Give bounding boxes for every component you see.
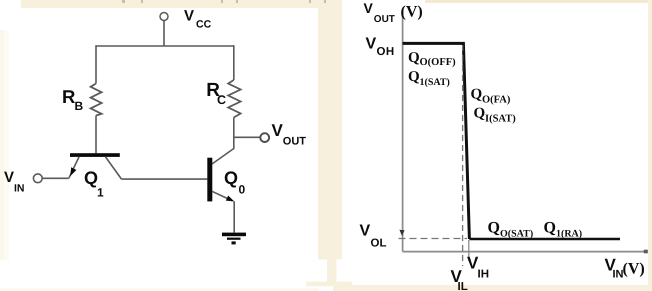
graph y-axis (402, 11, 404, 252)
svg-text:O(FA): O(FA) (482, 95, 511, 106)
transistor Q0 emitter (212, 191, 234, 203)
label QI(SAT) (474, 105, 517, 124)
svg-text:1: 1 (97, 186, 104, 200)
wire node to VOUT terminal (234, 136, 260, 138)
label RB (62, 86, 84, 113)
svg-text:OH: OH (377, 46, 395, 58)
transistor Q1 collector (106, 157, 122, 179)
resistor RC (228, 80, 240, 118)
transistor Q1 base bar (70, 153, 120, 157)
resistor RB (91, 84, 102, 116)
transistor Q1 emitter arrowhead (70, 167, 76, 176)
label VIL (451, 267, 468, 291)
label VOL (360, 222, 387, 249)
svg-text:V: V (4, 169, 14, 186)
svg-text:OL: OL (371, 237, 387, 249)
label QO(SAT) (488, 220, 534, 240)
transistor Q0 collector (212, 137, 234, 165)
dashed VIL vertical line (462, 45, 464, 266)
svg-text:Q: Q (224, 168, 238, 188)
curve VOH segment and fall (403, 43, 470, 239)
svg-text:Q: Q (408, 50, 420, 66)
wire Q0 emitter to ground (233, 201, 235, 232)
svg-text:B: B (75, 99, 84, 113)
label Q1(RA) (544, 220, 583, 240)
label VIN (4, 169, 25, 195)
label VOUT axis (364, 0, 423, 25)
svg-text:Q: Q (474, 105, 486, 121)
svg-text:Q: Q (471, 87, 483, 103)
svg-text:Q: Q (408, 69, 420, 85)
wire left branch drop (95, 45, 97, 83)
svg-text:Q: Q (488, 220, 500, 237)
svg-text:V: V (366, 35, 377, 52)
svg-text:CC: CC (196, 19, 212, 31)
dashed VOL level line (399, 238, 468, 240)
svg-text:0: 0 (239, 183, 246, 197)
svg-text:OUT: OUT (283, 136, 307, 148)
transistor Q0 base bar (207, 158, 212, 202)
wire RB to Q1 base (95, 116, 97, 154)
svg-text:OUT: OUT (374, 14, 395, 25)
label QO(OFF) (408, 50, 456, 68)
svg-text:1(SAT): 1(SAT) (420, 77, 450, 88)
transistor Q1 emitter (69, 157, 79, 178)
svg-text:IN: IN (14, 183, 25, 195)
label VCC (184, 7, 212, 30)
svg-text:Q: Q (84, 168, 98, 188)
svg-text:V: V (360, 222, 371, 239)
wire right branch drop (233, 45, 235, 80)
label QO(FA) (471, 87, 511, 106)
label VIN axis (605, 256, 645, 281)
svg-text:V: V (364, 0, 374, 16)
svg-text:1(RA): 1(RA) (556, 229, 582, 240)
axis tick arrow at VOL (399, 230, 404, 236)
VOUT terminal (260, 133, 269, 142)
svg-text:IH: IH (478, 269, 490, 281)
svg-text:Q: Q (544, 220, 556, 237)
wire top rail (96, 45, 234, 47)
curve VOL segment (469, 238, 620, 240)
svg-text:O(OFF): O(OFF) (420, 57, 457, 68)
VIN terminal (33, 174, 42, 183)
svg-text:V: V (272, 121, 284, 140)
svg-text:I(SAT): I(SAT) (485, 113, 516, 124)
wire Q1 collector to Q0 base (122, 178, 208, 180)
wire RC to collector node (233, 118, 235, 138)
svg-text:R: R (62, 86, 75, 107)
svg-text:C: C (217, 93, 226, 107)
ground (222, 233, 246, 245)
graph x-axis (403, 251, 645, 253)
transistor Q0 emitter arrowhead (226, 196, 234, 202)
label VIH (467, 254, 489, 281)
svg-text:V: V (184, 7, 194, 24)
svg-text:O(SAT): O(SAT) (500, 229, 533, 240)
label RC (206, 80, 226, 107)
svg-text:(V): (V) (401, 4, 423, 21)
wire VIN to Q1 emitter (42, 177, 69, 179)
svg-text:(V): (V) (623, 261, 645, 278)
label VOUT (272, 121, 307, 147)
graph x-axis arrowhead (644, 250, 648, 254)
VIH marker line (468, 240, 470, 261)
label Q1(SAT) upper (408, 69, 450, 88)
label VOH (366, 35, 395, 58)
label Q0 (224, 168, 246, 197)
wire VCC stem (163, 21, 165, 47)
label Q1 (84, 168, 104, 199)
svg-text:IL: IL (458, 281, 468, 291)
VCC terminal (160, 13, 168, 21)
